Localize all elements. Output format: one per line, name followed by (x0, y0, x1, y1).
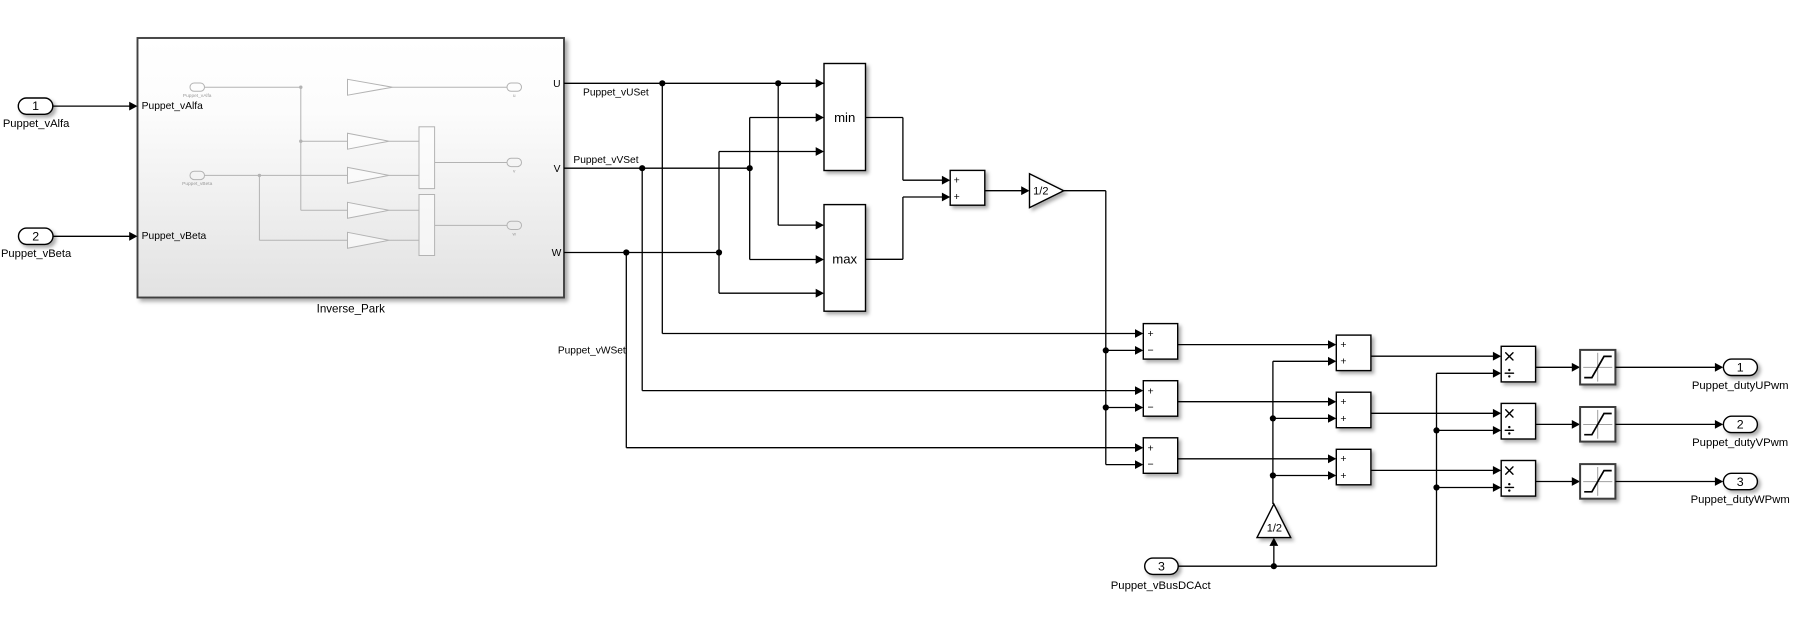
wire port1 to subsystem (53, 105, 130, 107)
svg-text:Puppet_vBusDCAct: Puppet_vBusDCAct (1111, 580, 1212, 592)
inner wire vertical from vAlfa junction (300, 87, 302, 210)
svg-text:Inverse_Park: Inverse_Park (317, 303, 386, 316)
output port 3 (1723, 473, 1757, 489)
junction U 2 (775, 80, 781, 86)
inner junction (299, 86, 302, 89)
wire vBusDC junction to upgain (1269, 538, 1278, 546)
subtract block row3 (+/-) (1143, 438, 1177, 474)
inner sum rect 1 (419, 127, 435, 189)
inner wire gain4 to sum2 (389, 209, 419, 211)
saturation block row1 (1580, 350, 1615, 385)
subtract block row2 (+/-) (1143, 381, 1177, 417)
add block row1 (+/+) (1336, 335, 1371, 371)
wire add3 out to divide3 (1371, 469, 1493, 471)
svg-text:+: + (1340, 356, 1346, 368)
inner junction 2 (299, 140, 302, 143)
wire saturation2 to output port 2 (1615, 423, 1715, 425)
wire add2 out to divide2 (1371, 412, 1493, 414)
svg-text:3: 3 (1158, 559, 1165, 573)
inner wire gain2 to sum1 (389, 140, 419, 142)
svg-text:−: − (1148, 402, 1154, 414)
subtract block row1 (+/-) (1143, 324, 1177, 360)
wire subtract2 out to add2 (1178, 401, 1329, 403)
wire add1 out to divide1 (1371, 355, 1493, 357)
svg-text:1/2: 1/2 (1033, 186, 1048, 198)
svg-text:Puppet_dutyVPwm: Puppet_dutyVPwm (1692, 437, 1788, 449)
wire saturation1 to output port 1 (1615, 366, 1715, 368)
wire port2 to subsystem (53, 235, 130, 237)
wire saturation3 to output port 3 (1615, 481, 1715, 483)
inner wire gain5 to sum2 (389, 239, 419, 241)
wire divide2 out to saturation2 (1536, 423, 1573, 425)
svg-text:+: + (1148, 328, 1154, 340)
svg-text:Puppet_vAlfa: Puppet_vAlfa (183, 93, 212, 99)
wire gain out down to subtract minus inputs (1064, 190, 1106, 192)
junction U 1 (659, 80, 665, 86)
inner gain 1 (348, 79, 393, 95)
svg-text:2: 2 (1737, 418, 1744, 432)
svg-text:W: W (552, 248, 562, 259)
svg-text:+: + (1340, 413, 1346, 425)
svg-text:Puppet_vWSet: Puppet_vWSet (558, 345, 626, 356)
inner wire to gain2 (301, 140, 348, 142)
inner input port Puppet_vBeta (faded) (190, 171, 205, 179)
gain 1/2 U4 (1030, 174, 1064, 208)
inner wire gain1 to u (393, 86, 508, 88)
svg-text:+: + (1340, 470, 1346, 482)
wire divide3 out to saturation3 (1536, 481, 1573, 483)
wire divide1 out to saturation1 (1536, 366, 1573, 368)
svg-text:min: min (834, 110, 855, 125)
inner wire vBeta down (258, 175, 260, 240)
gain 1/2 U5 (up) (1257, 504, 1291, 538)
input port 1 (18, 98, 53, 114)
junction V 1 (639, 165, 645, 171)
block min U1 (824, 64, 866, 171)
svg-text:+: + (1148, 442, 1154, 454)
wire max out to adder (866, 258, 903, 260)
svg-text:Puppet_vBeta: Puppet_vBeta (142, 231, 207, 242)
wire V to subtract2 plus (641, 168, 643, 390)
svg-text:Puppet_vVSet: Puppet_vVSet (573, 155, 638, 166)
inner input port Puppet_vAlfa (faded) (190, 83, 205, 91)
output port 2 (1723, 416, 1757, 432)
block max U2 (824, 205, 866, 312)
svg-text:Puppet_dutyWPwm: Puppet_dutyWPwm (1691, 494, 1790, 506)
wire port3 to divides (1178, 565, 1436, 567)
output port 1 (1723, 359, 1757, 375)
svg-text:1/2: 1/2 (1267, 523, 1282, 535)
input port 3 (1145, 558, 1179, 574)
wire U down to max in1 (777, 83, 779, 225)
svg-text:Puppet_vAlfa: Puppet_vAlfa (3, 118, 70, 130)
inner output oval u (507, 83, 522, 91)
inner junction vBeta (258, 174, 261, 177)
junction W 2 (716, 249, 722, 255)
add block row2 (+/+) (1336, 392, 1371, 428)
divide block row2 (x /) (1501, 403, 1535, 439)
inner wire vBeta (205, 174, 348, 176)
svg-text:+: + (954, 191, 960, 203)
divide block row1 (x /) (1501, 346, 1535, 382)
svg-text:Puppet_vBeta: Puppet_vBeta (182, 181, 212, 187)
wire upgain out to add blocks second inputs (1272, 361, 1274, 504)
wire subtract1 out to add1 (1178, 344, 1329, 346)
svg-text:U: U (553, 79, 560, 90)
wire V to min in2 and max in2 (749, 118, 751, 260)
input port 2 (19, 228, 54, 244)
inner wire sum1 to v (435, 162, 507, 164)
inner wire vAlfa (205, 86, 301, 88)
svg-text:2: 2 (32, 229, 39, 243)
svg-text:1: 1 (1737, 361, 1744, 375)
inner output oval w (507, 221, 522, 229)
wire subtract3 out to add3 (1178, 458, 1329, 460)
wire V output (564, 167, 750, 169)
inner wire gain3 to sum1 (389, 174, 419, 176)
wire U to subtract1 plus (661, 83, 663, 333)
wire W output (564, 252, 719, 254)
add block row3 (+/+) (1336, 449, 1371, 485)
wire min out to adder (866, 117, 903, 119)
svg-text:1: 1 (32, 99, 39, 113)
inner gain 3 (348, 167, 390, 183)
svg-text:+: + (1340, 339, 1346, 351)
junction V 2 (747, 165, 753, 171)
inner output oval v (507, 158, 522, 166)
wire adder to gain (985, 190, 1022, 192)
svg-text:−: − (1148, 459, 1154, 471)
inner gain 4 (348, 202, 390, 218)
svg-text:+: + (1148, 385, 1154, 397)
svg-text:Puppet_vBeta: Puppet_vBeta (1, 248, 72, 260)
wire W to min in3 and max in3 (718, 152, 720, 294)
svg-text:+: + (1340, 396, 1346, 408)
svg-text:−: − (1148, 345, 1154, 357)
inner sum rect 2 (419, 195, 435, 256)
svg-text:Puppet_dutyUPwm: Puppet_dutyUPwm (1692, 380, 1789, 392)
svg-text:u: u (513, 94, 516, 99)
svg-text:max: max (832, 252, 857, 267)
svg-text:Puppet_vUSet: Puppet_vUSet (583, 88, 649, 99)
junction W 1 (623, 249, 629, 255)
svg-text:3: 3 (1737, 475, 1744, 489)
inner gain 2 (348, 133, 390, 149)
saturation block row3 (1580, 464, 1615, 499)
inner gain 5 (348, 232, 390, 248)
wire U output (564, 82, 824, 84)
subsystem Inverse_Park (138, 38, 565, 298)
svg-text:Puppet_vAlfa: Puppet_vAlfa (142, 101, 204, 112)
svg-text:V: V (554, 164, 561, 175)
inner wire to gain4 (301, 209, 348, 211)
svg-text:+: + (954, 175, 960, 187)
divide block row3 (x /) (1501, 461, 1535, 497)
svg-text:+: + (1340, 453, 1346, 465)
wire W to subtract3 plus (625, 253, 627, 448)
saturation block row2 (1580, 407, 1615, 442)
adder U3 (min+max) (950, 170, 985, 205)
inner wire sum2 to w (435, 224, 507, 226)
svg-text:w: w (512, 233, 516, 238)
